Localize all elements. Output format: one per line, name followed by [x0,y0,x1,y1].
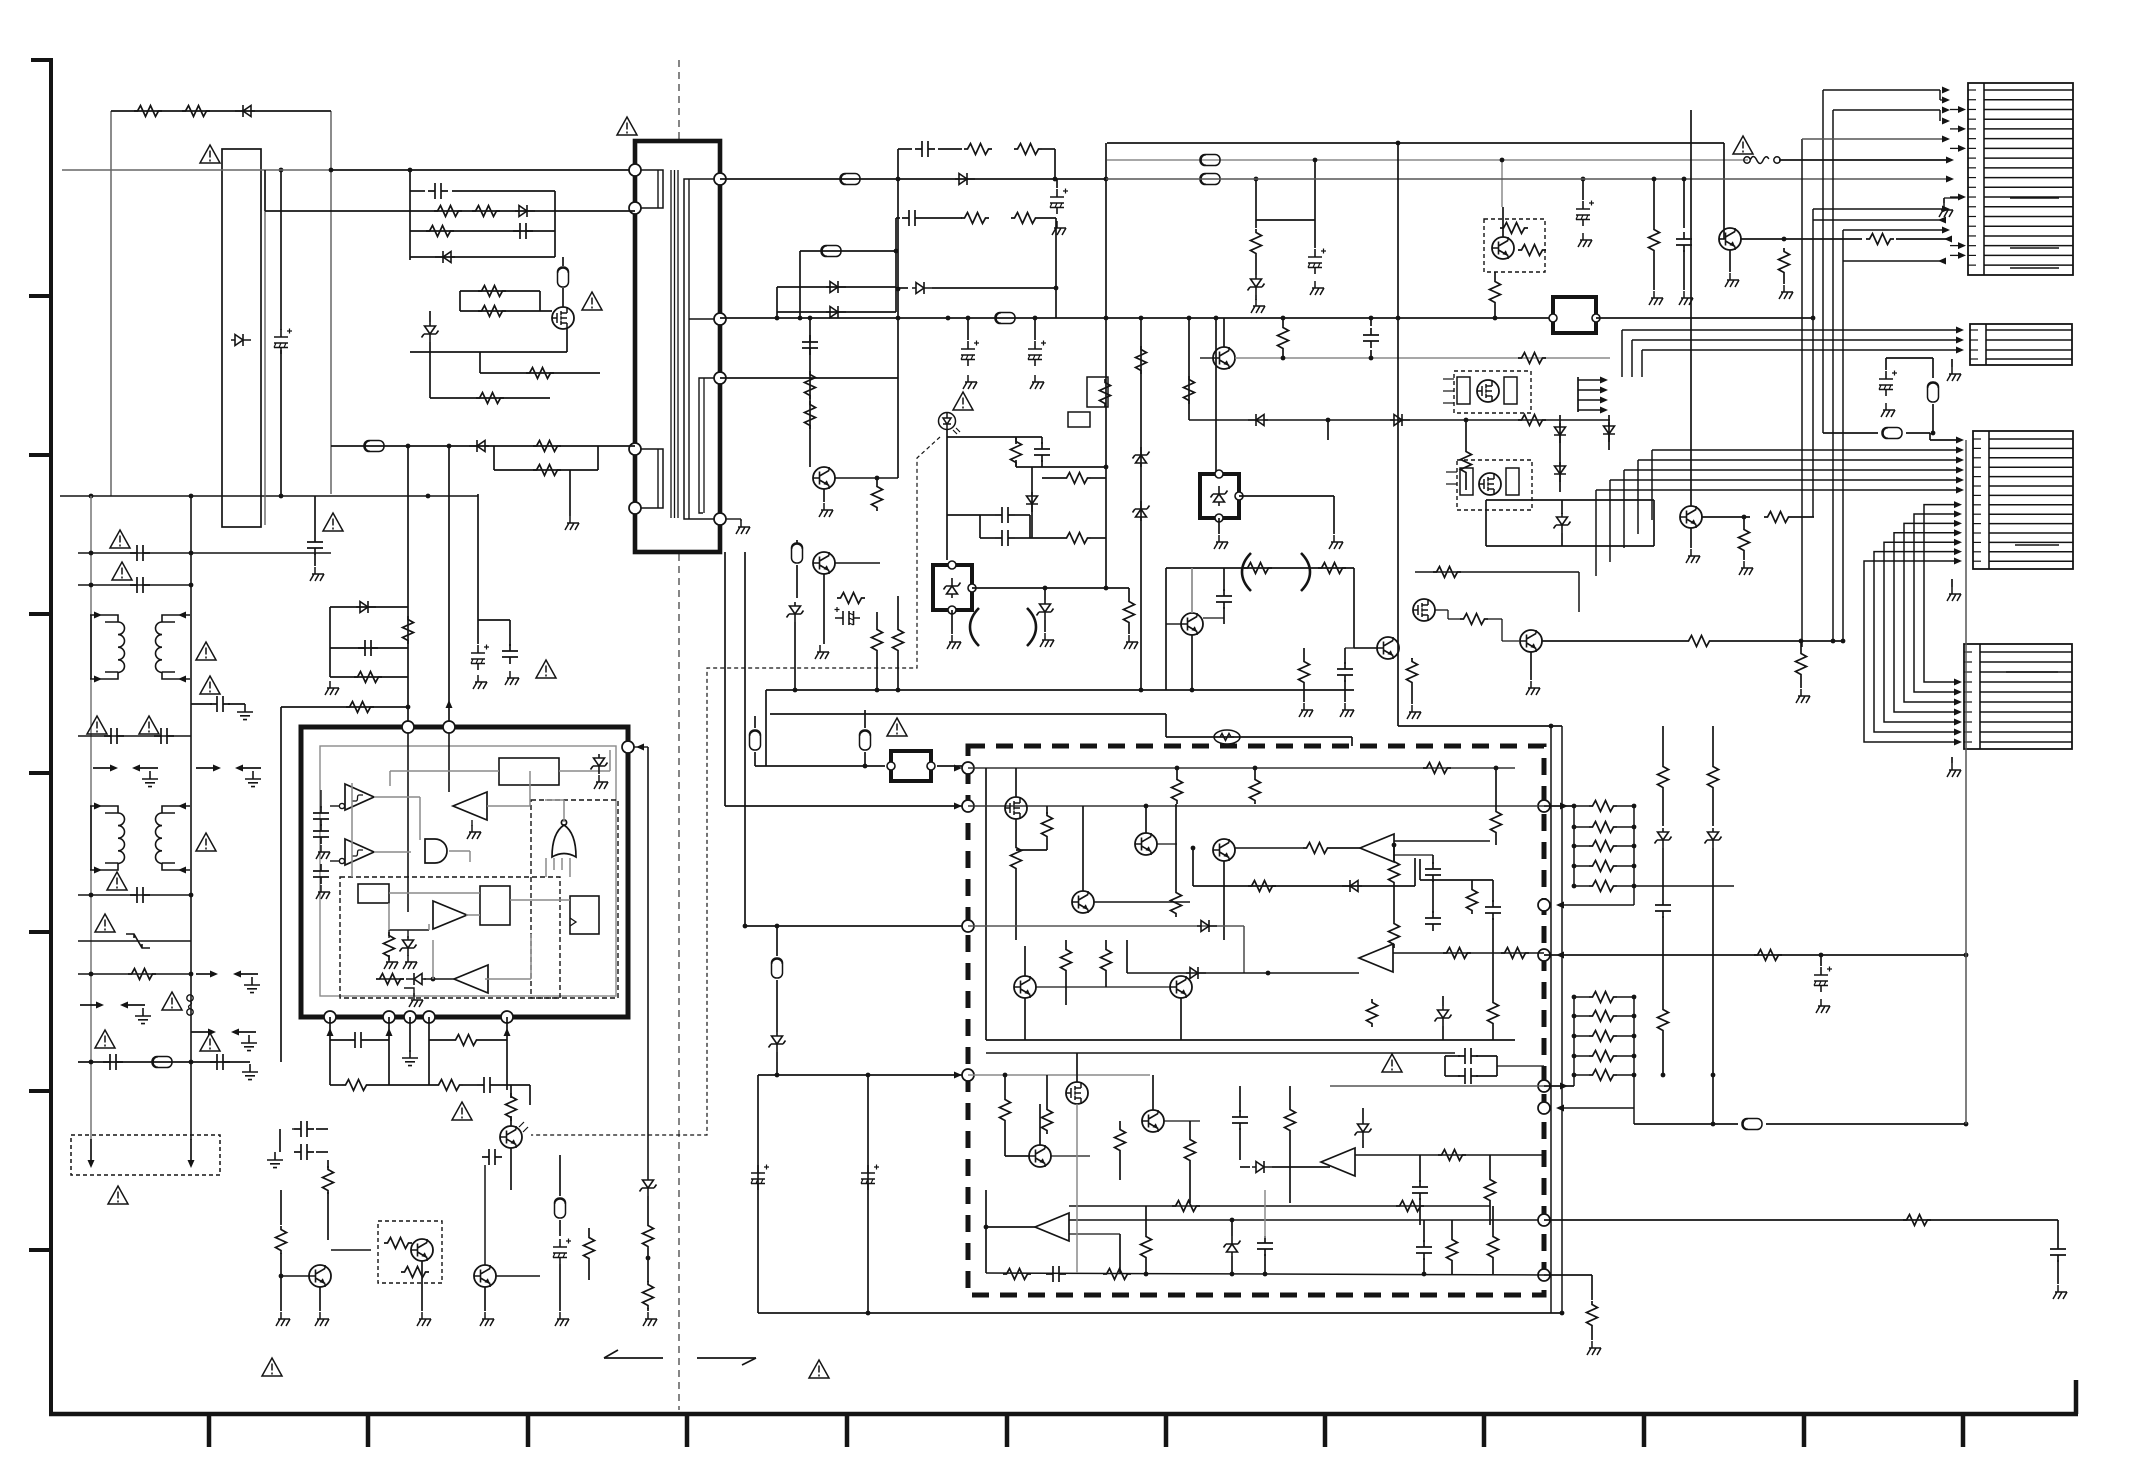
wire [1617,996,1634,998]
wire [1272,1166,1330,1168]
box [1553,297,1596,333]
junction [1313,158,1318,163]
pin wire [1578,399,1602,401]
wire [1180,998,1182,1040]
box [891,751,931,781]
transistor Q [1377,637,1399,659]
wire [1362,1140,1364,1148]
wire [1965,440,1967,1124]
border left tick y=932 [29,930,51,934]
wire vertical [1641,350,1643,377]
wire [497,1084,530,1086]
transformer pin [714,372,726,384]
wire [947,436,1042,438]
wire [292,1128,294,1130]
wire [968,925,1244,927]
connector pin stub [1970,358,1978,360]
chassis ground [409,993,423,1007]
wire [1448,618,1460,620]
wire [316,1151,328,1153]
wire [1215,318,1217,474]
connector pin line [1989,513,2073,515]
resistor [1589,881,1617,892]
wire [1303,648,1305,658]
capacitor [210,696,230,712]
chassis ground [594,775,608,789]
wire [1492,918,1494,999]
wire [1191,635,1193,690]
junction [1632,995,1637,1000]
junction [189,551,194,556]
connector pin stub [1973,560,1981,562]
arrow up [504,1028,511,1036]
wire [1617,1035,1634,1037]
ground at CN4 [1947,763,1961,777]
wire [1046,840,1048,850]
connector pin stub [1973,466,1981,468]
wire [1939,110,1941,121]
ladder rung wire [1574,845,1589,847]
ground [643,1312,657,1326]
wire [1344,680,1346,702]
wire [1823,89,1940,91]
arrow [1954,679,1962,686]
wire [1188,318,1190,420]
resistor [1754,950,1782,961]
resistor [1251,229,1262,257]
wire [1544,1274,1592,1276]
resistor [384,932,395,960]
stub [1446,471,1457,473]
wire vertical [1651,450,1653,520]
box terminal right y=806 [1538,800,1550,812]
wire [494,469,598,471]
wire [509,620,511,646]
resistor [964,144,992,155]
wire [1544,805,1574,807]
nested wire loop 4 [1904,523,1956,702]
op-amp [1360,834,1394,862]
earth ground [245,771,261,787]
connector pin line [1984,245,2073,247]
wire [670,170,672,518]
arrow [188,1160,195,1168]
wire [78,1061,250,1063]
wire [1394,840,1490,842]
resistor [1100,379,1111,407]
wire [1015,514,1030,516]
wire [1930,439,1958,441]
wire [190,496,192,1140]
connector pin stub [1970,329,1978,331]
diode [406,973,426,985]
transistor [1719,228,1741,250]
ground [1679,291,1693,305]
wire [1107,159,1748,161]
wire [429,1039,452,1041]
capacitor [307,535,323,555]
diode [1554,423,1566,443]
wire [1105,940,1107,946]
connector pin stub [1968,147,1976,149]
border bottom tick x=847 [845,1414,850,1447]
wire [1823,432,1878,434]
wire polyline [742,1358,756,1365]
junction [406,444,411,449]
ladder left bus [1573,997,1575,1075]
arrow [1958,252,1966,259]
wire [1486,499,1654,501]
connector pin stub [1964,681,1972,683]
wire [1792,516,1814,518]
wire [1476,1055,1497,1057]
resistor [1389,920,1400,948]
junction [1841,639,1846,644]
wire [1398,725,1562,727]
arrow [94,867,102,874]
arrow [1954,709,1962,716]
connector pin stub [1970,339,1978,341]
wire [368,1039,389,1041]
wire [1544,1219,2058,1221]
wire [898,217,900,219]
junction [863,764,868,769]
wire [1223,607,1225,624]
wire [1683,250,1685,290]
resistor [1299,658,1310,686]
transistor Q lower2 [1029,1145,1051,1167]
wire [777,286,896,288]
wire [796,565,798,598]
junction [1572,864,1577,869]
junction [1493,316,1498,321]
wire vertical [897,179,899,378]
wire [479,352,481,373]
junction [1632,825,1637,830]
connector inner key line [2015,544,2059,546]
resistor [1389,858,1400,886]
resistor [1461,448,1472,476]
resistor [1589,992,1617,1003]
wire [1843,260,1944,262]
varistor [126,934,150,948]
wire [1255,257,1257,275]
warning triangle [953,392,973,410]
resistor [1014,144,1042,155]
transformer pin [629,502,641,514]
MOSFET [1477,380,1499,402]
wire [946,430,948,560]
resistor [1011,844,1022,872]
resistor [1589,822,1617,833]
wire [1254,768,1256,776]
warning triangle [200,145,220,163]
wire [1800,678,1802,688]
wire [740,519,742,521]
wire [1119,1154,1121,1180]
border left tick y=1091 [29,1089,51,1093]
resistor [1318,563,1346,574]
wire [1447,610,1449,619]
wire [280,350,282,494]
wire [428,1017,430,1085]
resistor [1101,946,1112,974]
capacitor [995,507,1015,523]
diode [469,440,489,452]
wire [1189,419,1610,421]
wire [1653,500,1655,546]
wire [49,1412,2078,1417]
ground [473,675,487,689]
arrow [1600,387,1608,394]
wire [1327,420,1329,440]
wire [1617,805,1634,807]
connector inner key line [2010,267,2059,269]
capacitor [348,1032,368,1048]
wire [1662,791,1664,826]
wire [937,765,962,767]
wire [1345,647,1377,649]
ground [947,635,961,649]
wire [265,210,410,212]
junction [1053,177,1058,182]
ladder rung wire [1574,885,1589,887]
wire [407,733,409,912]
junction [1104,316,1109,321]
wire [409,170,411,260]
wire [1683,179,1685,228]
wire to terminal [1558,904,1634,906]
wire [429,311,431,322]
junction [1964,1122,1969,1127]
resistor [1303,843,1331,854]
ladder rung wire [1574,1074,1589,1076]
warning triangle [139,716,159,734]
connector pin stub [1973,457,1981,459]
wire [1435,609,1448,611]
connector pin line [1989,466,2073,468]
rect [1460,468,1473,495]
zener diode [1248,275,1265,295]
wire [1289,1134,1291,1203]
transistor Q [1520,630,1542,652]
gray wire [449,850,470,852]
transformer pin [714,313,726,325]
zener diode [1705,828,1722,848]
connector pin line [1989,532,2073,534]
wire long vertical [1397,143,1399,726]
junction [1549,724,1554,729]
ground [736,520,750,534]
wire [280,1253,282,1311]
resistor [1042,812,1053,840]
wire [330,111,332,494]
wire [1442,1026,1444,1040]
wire [471,820,473,826]
wire [777,311,896,313]
wire polyline [639,170,663,208]
capacitor [103,1054,123,1070]
wire [1444,1056,1446,1076]
arrow [1954,558,1962,565]
junction [426,494,431,499]
junction [89,972,94,977]
resistor [276,1226,287,1254]
connector pin line [1984,157,2073,159]
wire [1351,737,1353,746]
arrow [1954,739,1962,746]
ground [1881,403,1895,417]
box [1200,474,1239,518]
arrow into box [1556,902,1564,909]
wire [1729,250,1731,272]
wire [1939,90,1941,100]
parenthesis open [970,608,979,646]
wire [968,767,1515,769]
wire [1314,220,1316,248]
junction [1369,316,1374,321]
arrow [1942,97,1950,104]
op-amp [1359,944,1393,972]
wire [239,973,258,975]
resistor [1136,346,1147,374]
arrow [94,676,102,683]
wire [1055,218,1057,318]
wire [1362,1108,1364,1120]
wire [410,210,635,212]
wire [1492,1261,1494,1274]
wire [424,978,454,980]
arrow [1942,136,1950,143]
wire [1497,1065,1544,1067]
wire [1885,358,1887,370]
resistor [128,969,156,980]
wire [1486,545,1654,547]
connector pin stub [1973,513,1981,515]
wire [898,148,912,150]
junction [775,1073,780,1078]
wire [1492,880,1494,902]
wire [1069,1233,1120,1235]
IC pin right [622,741,634,753]
resistor [1779,248,1790,276]
electrolytic capacitor [1028,341,1046,367]
wire [330,805,339,807]
resistor [1589,1051,1617,1062]
wire [809,432,811,467]
ground [1526,681,1540,695]
connector pin line [1984,177,2073,179]
diode [515,205,535,217]
wire [1596,317,1813,319]
ground at CN1 [1939,203,1953,217]
wire [78,735,191,737]
chassis ground [403,955,417,969]
capacitor [313,806,329,826]
junction [279,494,284,499]
wire [1119,1121,1121,1126]
warning triangle [112,562,132,580]
wire [951,610,953,634]
wire [1783,276,1785,284]
wire [757,1075,759,1313]
ground [316,885,330,899]
box [1457,460,1532,510]
wire [1046,806,1048,814]
gray wire [561,858,563,870]
wire [316,1128,328,1130]
bundle wire [1842,230,1844,641]
wire [897,149,899,179]
wire [776,1052,778,1075]
electrolytic capacitor [274,329,292,355]
wire [329,1017,331,1085]
wire [796,540,798,543]
wire [370,1084,435,1086]
resistor [805,401,816,429]
resistor [1011,213,1039,224]
wire [279,1129,281,1152]
junction [406,705,411,710]
resistor [1396,1201,1424,1212]
wire polyline [699,378,716,513]
wire [1166,689,1354,691]
connector pin line [1984,128,2073,130]
wire [823,574,825,644]
wire [588,1228,590,1234]
inductor [840,174,860,185]
wire [1145,1261,1147,1274]
connector pin line [1989,560,2073,562]
resistor [526,368,554,379]
wire [1719,238,1724,240]
wire [330,1084,342,1086]
IC pin bottom x=429 [423,1011,435,1023]
connector pin stub [1964,731,1972,733]
wire [90,806,92,870]
arrow [1946,176,1954,183]
resistor [1042,1106,1053,1134]
gray wire [351,783,353,806]
wire [1766,1123,1966,1125]
resistor [472,206,500,217]
border bottom tick x=1007 [1005,1414,1010,1447]
box [320,746,616,996]
connector pin line [1980,731,2072,733]
wire [1239,1086,1241,1112]
chassis ground [316,845,330,859]
arrow [1954,511,1962,518]
junction [1230,1218,1235,1223]
wire [1653,179,1655,226]
junction [1572,804,1577,809]
warning triangle [323,513,343,531]
wire [460,290,540,292]
junction [1572,884,1577,889]
connector pin line [1980,741,2072,743]
junction [1396,316,1401,321]
parenthesis open [1242,553,1251,591]
connector pin line [1984,196,2073,198]
gray wire [968,1074,1150,1076]
arrow [1958,145,1966,152]
connector pin stub [1968,215,1976,217]
junction [1632,884,1637,889]
wire [1193,885,1415,887]
junction [1191,846,1196,851]
transistor Q [813,552,835,574]
wire [766,689,1166,691]
